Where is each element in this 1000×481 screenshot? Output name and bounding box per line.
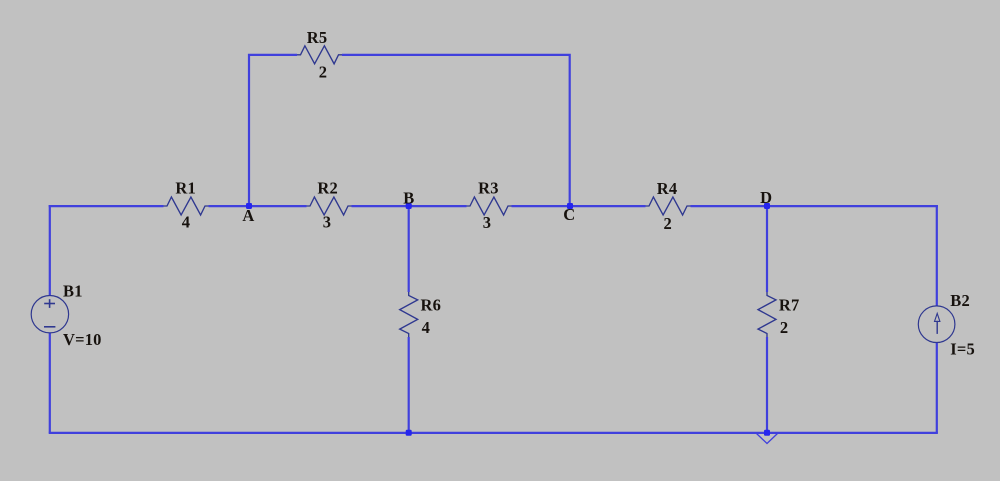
svg-text:C: C xyxy=(563,205,575,224)
resistor R4 xyxy=(646,197,691,215)
svg-text:V=10: V=10 xyxy=(63,330,102,349)
voltage source B1 xyxy=(31,296,68,333)
svg-text:B2: B2 xyxy=(950,291,970,310)
node D junction dot xyxy=(764,203,770,209)
svg-text:R4: R4 xyxy=(657,179,678,198)
node C junction dot xyxy=(567,203,573,209)
wire: top loop from node A up, across to R5 xyxy=(249,55,297,206)
wire: R7 bottom to bottom rail xyxy=(766,337,768,433)
node B junction dot xyxy=(406,203,412,209)
svg-text:B1: B1 xyxy=(63,282,83,301)
svg-text:D: D xyxy=(760,188,772,207)
svg-text:2: 2 xyxy=(780,318,788,337)
svg-text:B: B xyxy=(403,189,414,208)
svg-text:4: 4 xyxy=(182,213,190,232)
wire: R6 bottom to bottom rail xyxy=(408,337,410,433)
svg-text:R3: R3 xyxy=(478,179,499,198)
wire: bottom rail xyxy=(49,432,938,434)
resistor R2 xyxy=(307,197,352,215)
junction dot bottom under D xyxy=(764,430,770,436)
B1 minus sign xyxy=(44,326,55,328)
svg-text:2: 2 xyxy=(663,214,671,233)
B2 arrow xyxy=(936,321,938,334)
wire: right rail upper (corner to B2 top) xyxy=(936,205,938,307)
resistor R5 xyxy=(297,46,342,64)
svg-text:3: 3 xyxy=(483,213,491,232)
B1 plus sign xyxy=(44,303,55,305)
resistor R1 xyxy=(164,197,209,215)
svg-text:R2: R2 xyxy=(317,178,338,197)
svg-text:R7: R7 xyxy=(779,296,800,315)
svg-text:I=5: I=5 xyxy=(950,340,975,359)
current source B2 xyxy=(918,306,955,343)
svg-text:R5: R5 xyxy=(307,28,328,47)
svg-text:R6: R6 xyxy=(421,296,442,315)
wire: main horizontal rail segments (y=206) xyxy=(49,205,164,207)
wire: left rail upper (corner to B1 top) xyxy=(49,205,51,296)
ground xyxy=(757,434,778,444)
wire: left rail lower (B1 bottom to corner) xyxy=(49,333,51,433)
svg-text:4: 4 xyxy=(422,318,430,337)
svg-text:3: 3 xyxy=(323,213,331,232)
wire: top loop from R5 right to node C xyxy=(342,55,570,206)
resistor R3 xyxy=(467,197,512,215)
svg-text:R1: R1 xyxy=(175,179,196,198)
wire: right rail lower (B2 bottom to corner) xyxy=(936,343,938,433)
resistor R6 xyxy=(400,292,418,337)
svg-text:A: A xyxy=(242,206,254,225)
wire: node D down to R7 xyxy=(766,206,768,292)
svg-text:2: 2 xyxy=(319,63,327,82)
resistor R7 xyxy=(758,292,776,337)
node A junction dot xyxy=(246,203,252,209)
junction dot bottom under B xyxy=(406,430,412,436)
wire: node B down to R6 xyxy=(408,206,410,292)
